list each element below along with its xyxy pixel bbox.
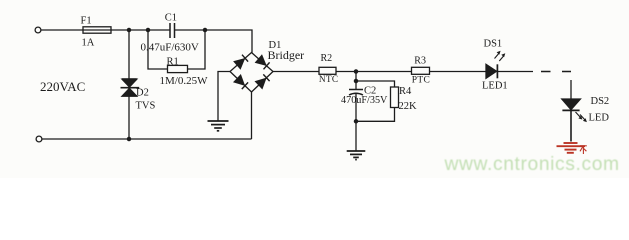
terminal bottom-left — [36, 136, 42, 142]
wire top rail left — [41, 29, 83, 31]
fuse F1 — [83, 27, 111, 33]
wire top rail to bridge — [111, 30, 252, 53]
wire DS2 cathode stem — [570, 111, 572, 142]
terminal top-left — [35, 27, 41, 33]
bridge diode top-right — [256, 56, 270, 70]
wire bridge minus to ground — [218, 72, 230, 121]
svg-text:DS1: DS1 — [484, 39, 503, 50]
resistor R2 — [319, 67, 336, 74]
svg-text:R3: R3 — [414, 56, 426, 67]
LED DS2 — [562, 99, 581, 110]
bridge diode bottom-right — [256, 74, 270, 88]
capacitor C1 — [170, 23, 175, 38]
svg-text:LED1: LED1 — [482, 81, 508, 92]
wire R4 bottom — [356, 108, 395, 122]
svg-text:22K: 22K — [399, 101, 418, 112]
ground G1 — [208, 121, 229, 131]
wire C2 stem lower — [355, 94, 357, 151]
svg-text:0.47uF/630V: 0.47uF/630V — [141, 42, 199, 54]
node junction dot A — [127, 28, 130, 31]
TVS diode D2 — [121, 79, 140, 96]
svg-text:NTC: NTC — [319, 75, 339, 85]
wire R3 to DS1 — [430, 71, 487, 73]
wire dashed continuation — [541, 71, 571, 73]
node junction dot C — [203, 28, 206, 31]
svg-text:R1: R1 — [167, 56, 179, 67]
wire D2 branch vertical — [128, 30, 130, 139]
svg-text:1A: 1A — [82, 38, 95, 49]
svg-text:LED: LED — [589, 113, 610, 124]
svg-text:R4: R4 — [399, 86, 412, 97]
node junction dot B — [146, 28, 149, 31]
wire DS1 cathode — [498, 71, 533, 73]
svg-text:Bridger: Bridger — [268, 48, 305, 62]
LED DS1 — [486, 64, 497, 78]
svg-text:DS2: DS2 — [591, 96, 610, 107]
svg-text:www.cntronics.com: www.cntronics.com — [444, 154, 620, 175]
wire R2 to R3 — [336, 71, 412, 73]
capacitor C2 — [349, 90, 363, 96]
svg-text:R2: R2 — [321, 53, 333, 64]
wire DS2 drop — [570, 80, 572, 99]
svg-text:D2: D2 — [136, 88, 149, 99]
node junction dot D — [127, 137, 130, 140]
wire bridge plus to R2 — [273, 71, 319, 73]
ground G2 — [347, 151, 366, 160]
wire bottom rail — [42, 92, 252, 139]
svg-text:470uF/35V: 470uF/35V — [341, 95, 388, 106]
wire R1 branch left — [148, 30, 168, 69]
resistor R3 — [412, 67, 430, 74]
svg-text:TVS: TVS — [136, 101, 156, 112]
svg-text:220VAC: 220VAC — [40, 79, 85, 94]
svg-text:C1: C1 — [165, 12, 177, 23]
red glyph — [580, 146, 587, 154]
node junction dot F — [354, 79, 357, 82]
wire C2 stem upper — [355, 72, 357, 90]
node junction dot E — [354, 70, 357, 73]
svg-text:F1: F1 — [81, 16, 92, 27]
bridge diode top-left — [234, 55, 248, 69]
resistor R4 — [391, 87, 399, 108]
LED DS1 arrows — [495, 51, 506, 61]
node junction dot G — [354, 120, 357, 123]
svg-text:PTC: PTC — [412, 75, 430, 85]
wire branch to R4 top — [356, 81, 395, 87]
wire R1 branch right — [188, 30, 206, 69]
ground G3 red — [557, 143, 586, 153]
bridge rectifier D1 outline — [230, 53, 273, 93]
resistor R1 — [168, 65, 188, 72]
LED DS2 arrows — [576, 112, 587, 122]
svg-text:1M/0.25W: 1M/0.25W — [160, 75, 209, 87]
bridge diode bottom-left — [234, 75, 248, 89]
